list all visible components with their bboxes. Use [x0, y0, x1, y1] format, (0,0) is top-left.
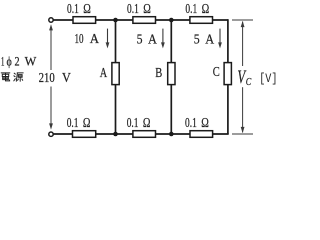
resistor 0.1ohm top line 3	[190, 17, 213, 24]
label 0.1 ohm bottom 1	[67, 115, 91, 130]
wire branch A	[115, 20, 117, 134]
svg-text:W: W	[25, 55, 37, 69]
kanji DEN (electric)	[1, 73, 10, 81]
load A box	[112, 63, 119, 85]
label 0.1 ohm bottom 2	[127, 115, 151, 130]
svg-text:V: V	[62, 70, 71, 85]
svg-text:Ω: Ω	[202, 1, 210, 16]
svg-text:0.1: 0.1	[127, 115, 139, 130]
wire bottom bus	[53, 133, 228, 135]
resistor 0.1ohm top line 1	[73, 17, 96, 24]
source voltage dimension arrow	[50, 26, 52, 128]
load C box	[224, 63, 231, 85]
svg-text:A: A	[205, 31, 214, 46]
svg-text:Ω: Ω	[143, 115, 151, 130]
terminal bottom-left	[49, 132, 53, 136]
current arrow 5A (B)	[162, 29, 164, 44]
kanji GEN (source)	[14, 73, 23, 81]
svg-text:Ω: Ω	[83, 115, 91, 130]
svg-text:2: 2	[15, 55, 20, 69]
node junction bottom B	[169, 132, 174, 137]
resistor 0.1ohm top line 2	[133, 17, 156, 24]
terminal top-left	[49, 18, 53, 22]
svg-text:10: 10	[75, 31, 84, 46]
label 10 A	[75, 31, 100, 46]
label 0.1 ohm top 2	[127, 1, 151, 16]
current arrow 5A (C)	[219, 29, 221, 44]
svg-text:[V]: [V]	[259, 71, 277, 86]
svg-text:1: 1	[1, 55, 5, 69]
svg-text:210: 210	[39, 70, 55, 85]
svg-text:Ω: Ω	[83, 1, 91, 16]
svg-text:0.1: 0.1	[127, 1, 139, 16]
node junction bottom A	[113, 132, 118, 137]
svg-text:C: C	[246, 77, 252, 88]
label 0.1 ohm top 3	[185, 1, 209, 16]
svg-text:ϕ: ϕ	[7, 55, 13, 69]
svg-text:5: 5	[194, 31, 200, 46]
Vc dimension arrow with ticks	[232, 20, 253, 134]
resistor 0.1ohm bottom line 2	[133, 131, 156, 138]
label 5 A (C)	[194, 31, 215, 46]
node junction top B	[169, 18, 174, 23]
svg-text:A: A	[148, 31, 157, 46]
label 0.1 ohm bottom 3	[185, 115, 209, 130]
svg-text:Ω: Ω	[201, 115, 209, 130]
svg-text:B: B	[155, 66, 162, 81]
resistor 0.1ohm bottom line 3	[190, 131, 213, 138]
svg-text:0.1: 0.1	[67, 1, 79, 16]
resistor 0.1ohm bottom line 1	[73, 131, 96, 138]
svg-text:5: 5	[137, 31, 143, 46]
label 5 A (B)	[137, 31, 158, 46]
svg-text:Ω: Ω	[143, 1, 151, 16]
svg-text:C: C	[213, 65, 220, 80]
label 0.1 ohm top 1	[67, 1, 91, 16]
current arrow 10A	[107, 29, 109, 44]
load B box	[168, 63, 175, 85]
node junction top A	[113, 18, 118, 23]
svg-text:A: A	[100, 66, 108, 81]
label 1-phase 2-wire	[1, 55, 37, 69]
svg-text:A: A	[90, 31, 100, 46]
svg-text:0.1: 0.1	[185, 115, 197, 130]
label 210 V	[39, 70, 71, 85]
wire branch B	[170, 20, 172, 134]
svg-text:0.1: 0.1	[185, 1, 197, 16]
wire top bus	[53, 19, 228, 21]
svg-text:0.1: 0.1	[67, 115, 79, 130]
wire right vertical (to load C)	[227, 19, 229, 134]
